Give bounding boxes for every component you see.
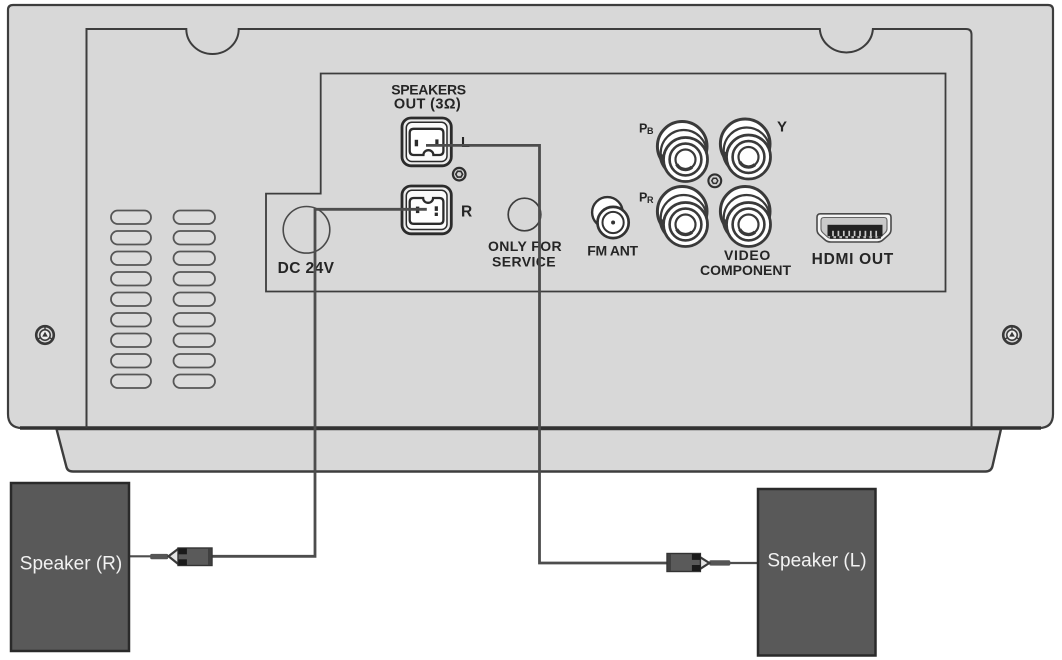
svg-text:OUT (3Ω): OUT (3Ω): [394, 97, 461, 113]
RCA jack Y: [720, 119, 770, 179]
svg-text:FM ANT: FM ANT: [587, 243, 638, 259]
svg-text:HDMI OUT: HDMI OUT: [812, 251, 894, 268]
speaker R cable plug: [127, 548, 212, 566]
ONLY FOR SERVICE jack circle: [508, 198, 541, 231]
svg-text:R: R: [647, 195, 654, 205]
svg-text:SPEAKERS: SPEAKERS: [391, 82, 466, 98]
ventilation slots (left column): [111, 211, 151, 389]
ventilation slots (right column): [174, 211, 216, 389]
left chassis screw: [36, 326, 54, 344]
right chassis screw: [1003, 326, 1021, 344]
base stand (plinth below chassis): [57, 429, 1002, 472]
speaker L cable plug: [667, 554, 758, 572]
svg-text:VIDEO: VIDEO: [724, 247, 771, 263]
device rear panel outer body: [8, 5, 1053, 428]
connection area outline: [266, 74, 946, 292]
RCA jack Pb: [657, 122, 707, 182]
inner recessed panel with two top notches: [87, 29, 972, 428]
speaker R box: [11, 483, 129, 651]
svg-text:B: B: [647, 126, 654, 136]
component screw (between RCA jacks): [708, 174, 721, 187]
speaker L box: [758, 489, 876, 656]
svg-text:Y: Y: [777, 119, 787, 136]
svg-text:R: R: [461, 204, 472, 221]
HDMI OUT port: [817, 214, 891, 242]
speaker terminal R: [402, 186, 451, 234]
svg-text:Speaker (R): Speaker (R): [20, 554, 122, 575]
svg-text:L: L: [461, 135, 470, 151]
speaker terminal L: [402, 118, 451, 166]
svg-text:SERVICE: SERVICE: [492, 253, 556, 269]
RCA jack Pr: [657, 187, 707, 247]
DC 24V jack circle: [283, 207, 330, 254]
FM ANT connector: [592, 197, 629, 238]
svg-text:Speaker (L): Speaker (L): [767, 551, 866, 572]
RCA jack bottom-right: [720, 187, 770, 247]
svg-text:DC 24V: DC 24V: [278, 260, 335, 277]
wire from terminal R down to right speaker: [212, 209, 427, 556]
svg-text:ONLY FOR: ONLY FOR: [488, 238, 562, 254]
terminal screw (between L and R): [453, 168, 466, 181]
svg-text:COMPONENT: COMPONENT: [700, 262, 791, 278]
chassis bottom thick edge: [20, 426, 1041, 429]
wire from terminal L to left speaker cable (horizontal at terminal): [426, 145, 669, 563]
